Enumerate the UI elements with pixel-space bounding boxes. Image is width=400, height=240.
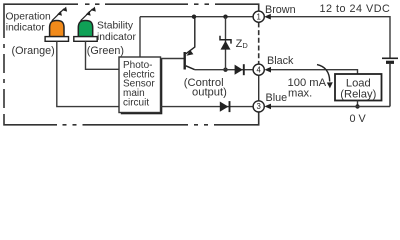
svg-text:(Relay): (Relay) — [340, 89, 376, 101]
light arrows for stability indicator — [81, 7, 96, 21]
svg-text:ZD: ZD — [236, 38, 249, 50]
wire: top +V rail inside — [140, 16, 253, 18]
svg-text:output): output) — [192, 86, 227, 98]
node: junction dot zener/rail — [223, 15, 227, 19]
terminal 1 — [253, 11, 264, 22]
svg-text:indicator: indicator — [97, 32, 136, 43]
svg-text:Operation: Operation — [6, 11, 51, 22]
node: junction dot zener/output wire — [223, 68, 227, 72]
battery (12-24V source) — [382, 58, 398, 106]
svg-text:Brown: Brown — [265, 4, 296, 16]
svg-text:indicator: indicator — [6, 22, 45, 33]
node: junction dot collector/rail — [192, 15, 196, 19]
wire: base wire from box to transistor — [161, 58, 185, 60]
diode D1 (control output) — [235, 64, 244, 75]
zener diode ZD — [220, 17, 231, 70]
wire: blue external from terminal 3 to battery — [264, 104, 390, 110]
wire: orange LED lead to main circuit — [57, 41, 119, 106]
label: (Control output) — [184, 77, 227, 99]
transistor Q1 (output, PNP style arrow) — [185, 17, 195, 70]
svg-text:1: 1 — [257, 13, 261, 22]
svg-text:circuit: circuit — [123, 97, 149, 108]
wire: load bottom stub to 0V rail — [357, 101, 359, 107]
svg-text:3: 3 — [257, 102, 261, 111]
svg-text:Stability: Stability — [97, 21, 134, 32]
stability indicator LED (green) — [74, 21, 97, 42]
wire: black external from terminal 4 to load top — [264, 67, 357, 74]
photoelectric sensor main circuit box — [119, 57, 162, 114]
svg-text:Black: Black — [267, 55, 294, 67]
sensor enclosure dash-dot border — [4, 4, 259, 125]
terminal 3 — [253, 101, 264, 112]
wire: 0V line from box to terminal 3 — [161, 106, 254, 108]
svg-text:Blue: Blue — [266, 92, 288, 104]
wire: green LED lead to main circuit — [86, 41, 120, 69]
wire: control output to terminal 4 — [195, 69, 254, 71]
svg-text:12 to 24 VDC: 12 to 24 VDC — [320, 3, 391, 15]
svg-text:(Green): (Green) — [87, 45, 124, 57]
load (relay) box — [335, 74, 382, 109]
node: junction load/0V rail — [355, 104, 359, 108]
label: Operation indicator (Orange) — [6, 11, 55, 57]
wire: brown external with arrow into terminal 1 — [264, 14, 390, 58]
terminal 4 — [253, 64, 264, 75]
light arrows for operation indicator — [52, 7, 67, 21]
diode D2 (reverse protection) — [220, 101, 230, 112]
operation indicator LED (orange) — [45, 21, 68, 42]
label: Stability indicator (Green) — [87, 21, 137, 58]
label 100 mA max. with curved arrow — [288, 77, 327, 100]
curved current arrow — [317, 65, 333, 89]
wire: vertical from rail into main circuit box top — [139, 17, 141, 57]
svg-text:(Orange): (Orange) — [12, 45, 55, 57]
svg-text:max.: max. — [288, 88, 312, 100]
svg-text:0 V: 0 V — [350, 113, 367, 125]
svg-text:4: 4 — [257, 66, 262, 75]
